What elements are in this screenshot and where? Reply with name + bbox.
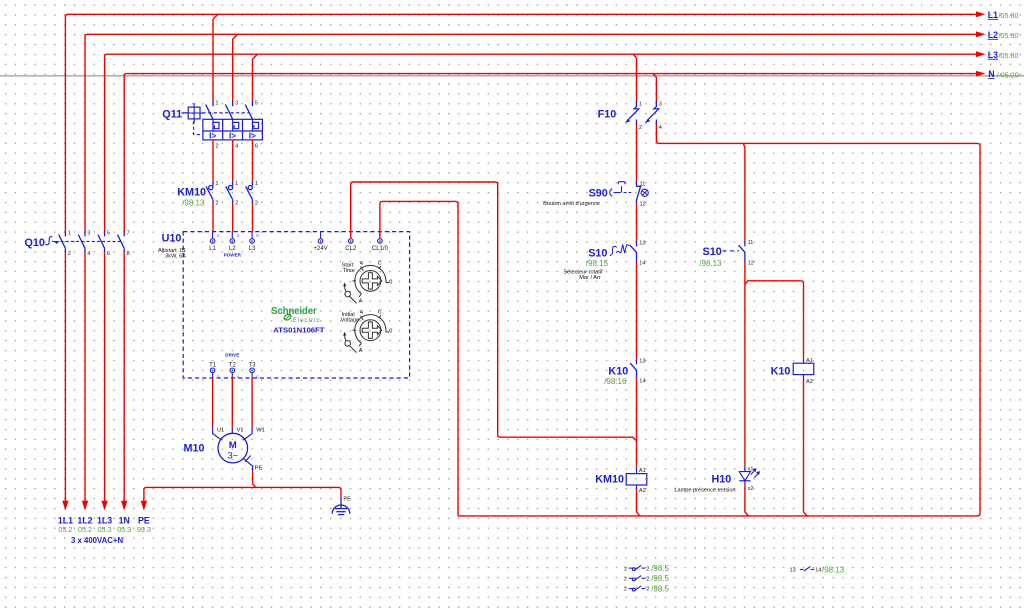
S90 NC contact bbox=[637, 182, 642, 204]
svg-text:T2: T2 bbox=[229, 362, 237, 368]
svg-text:2: 2 bbox=[646, 587, 649, 593]
svg-text:K10: K10 bbox=[608, 366, 628, 378]
svg-text:KM10: KM10 bbox=[177, 187, 206, 199]
wire U10 T2 to motor V1 bbox=[231, 378, 233, 428]
svg-text:4: 4 bbox=[87, 251, 90, 257]
ground PE bbox=[332, 497, 350, 514]
svg-text:U1: U1 bbox=[217, 427, 224, 433]
svg-text:3: 3 bbox=[659, 101, 662, 107]
svg-text:5: 5 bbox=[256, 233, 259, 238]
terminal arrow 1L3 bbox=[97, 501, 112, 534]
svg-text:I>: I> bbox=[229, 132, 236, 141]
Q10 pole 3 (pins 5-6) bbox=[98, 231, 105, 252]
svg-text:4: 4 bbox=[235, 143, 238, 149]
wire Q10 pin 6 to terminal 1L3 bbox=[104, 252, 106, 501]
wire L2 rail bbox=[85, 34, 977, 231]
cross-reference KM10 contact 3-4 row 2 bbox=[624, 574, 670, 583]
svg-text:05.2: 05.2 bbox=[58, 525, 72, 534]
svg-text:C: C bbox=[378, 260, 382, 266]
wire Q11 pin 4 to KM10 pin 3 bbox=[232, 140, 234, 182]
svg-text:6: 6 bbox=[255, 143, 258, 149]
wire rail L1 to Q11 pole 1 bbox=[213, 14, 218, 101]
svg-text:/98.5: /98.5 bbox=[651, 574, 669, 583]
svg-text:W1: W1 bbox=[256, 427, 264, 433]
Schneider logo bbox=[271, 306, 320, 324]
U10 terminal T2 (pin 4) bbox=[229, 362, 240, 379]
svg-text:2: 2 bbox=[639, 125, 642, 131]
terminal arrow 1L2 bbox=[77, 501, 92, 534]
wire S10 pin 12 down to H10 and branch to K10 coil bbox=[744, 261, 746, 465]
cross-reference KM10 contact 5-6 row 3 bbox=[624, 584, 670, 593]
svg-text:U10: U10 bbox=[162, 233, 182, 245]
U10 terminal L2 (pin 3) bbox=[229, 232, 240, 252]
svg-text:1: 1 bbox=[215, 181, 218, 187]
wire Q11 pin 6 to KM10 pin 5 bbox=[252, 140, 254, 182]
svg-text:3: 3 bbox=[87, 231, 90, 237]
wire K10 pin 14 to KM10 coil A1 bbox=[636, 378, 638, 468]
wire KM10 pin 4 to U10 L2 bbox=[232, 203, 234, 232]
svg-text:Time: Time bbox=[343, 268, 355, 274]
svg-text:L2: L2 bbox=[229, 246, 236, 252]
wire CL2 control bbox=[351, 182, 637, 441]
svg-text:C: C bbox=[378, 310, 382, 316]
soft starter U10 enclosure bbox=[183, 232, 409, 378]
svg-text:DRIVE: DRIVE bbox=[225, 353, 239, 358]
relay coil K10 bbox=[771, 359, 814, 379]
svg-text:1: 1 bbox=[217, 233, 220, 238]
wire rail L2 to Q11 pole 2 bbox=[233, 34, 238, 101]
svg-text:14: 14 bbox=[639, 378, 645, 384]
svg-text:2: 2 bbox=[215, 143, 218, 149]
wire PE rail bbox=[144, 487, 341, 501]
svg-text:13: 13 bbox=[639, 358, 645, 364]
U10 terminal L3 (pin 5) bbox=[249, 232, 260, 252]
F10 pole 1 (pins 1-2) bbox=[627, 101, 638, 124]
Q10 pole 2 (pins 3-4) bbox=[78, 231, 85, 252]
svg-text:4: 4 bbox=[360, 310, 363, 316]
Q11 trip unit box bbox=[203, 119, 263, 140]
svg-text:/05.80: /05.80 bbox=[999, 31, 1019, 40]
motor M10 bbox=[184, 427, 265, 463]
U10 terminal CL1/0 bbox=[372, 232, 389, 252]
svg-text:L3: L3 bbox=[249, 246, 256, 252]
svg-text:L1: L1 bbox=[988, 10, 998, 20]
svg-text:/98.13: /98.13 bbox=[182, 198, 205, 207]
svg-text:7: 7 bbox=[127, 231, 130, 237]
motor breaker Q11 bbox=[162, 103, 250, 135]
Q10 pole 1 (pins 1-2) bbox=[59, 231, 66, 252]
svg-text:x1: x1 bbox=[748, 466, 754, 472]
svg-text:PE: PE bbox=[343, 497, 351, 503]
wire U10 T1 to motor U1 bbox=[212, 378, 214, 428]
svg-text:1: 1 bbox=[215, 100, 218, 106]
wire L3 rail bbox=[105, 54, 977, 231]
KM10 pole 3 bbox=[246, 181, 253, 202]
svg-text:2: 2 bbox=[646, 566, 649, 572]
svg-text:/98.5: /98.5 bbox=[651, 584, 669, 593]
Q11 pole 1 blade (pin 1) bbox=[206, 101, 213, 119]
svg-text:ATS01N106FT: ATS01N106FT bbox=[273, 326, 324, 335]
svg-text:Lampe présence tension: Lampe présence tension bbox=[674, 488, 735, 494]
KM10 pole 2 bbox=[226, 181, 233, 202]
svg-text:/98.16: /98.16 bbox=[604, 377, 627, 386]
selector contact S10 (11-12) bbox=[699, 246, 739, 268]
svg-text:L1: L1 bbox=[209, 246, 216, 252]
svg-text:A2: A2 bbox=[806, 379, 813, 385]
svg-text:1: 1 bbox=[235, 181, 238, 187]
svg-text:4: 4 bbox=[659, 125, 662, 131]
svg-text:0: 0 bbox=[389, 279, 392, 285]
wire Q11 pin 2 to KM10 pin 1 bbox=[212, 140, 214, 182]
svg-text:POWER: POWER bbox=[224, 252, 242, 257]
svg-text:0: 0 bbox=[389, 329, 392, 335]
svg-text:3~: 3~ bbox=[227, 451, 238, 462]
wire CL1/0 control bbox=[380, 201, 458, 516]
svg-text:A1: A1 bbox=[639, 468, 646, 474]
svg-text:1: 1 bbox=[624, 587, 627, 593]
wire branch to K10 coil A1 bbox=[745, 281, 804, 359]
svg-text:1: 1 bbox=[68, 231, 71, 237]
svg-text:/98.13: /98.13 bbox=[822, 565, 845, 574]
svg-text:Mar / Arr: Mar / Arr bbox=[579, 275, 601, 281]
svg-text:A: A bbox=[359, 348, 363, 354]
svg-text:12: 12 bbox=[640, 202, 646, 208]
svg-text:6: 6 bbox=[256, 374, 259, 379]
wire F10 pin 2 to S90 pin 11 bbox=[636, 124, 638, 182]
svg-text:1N: 1N bbox=[119, 515, 130, 525]
svg-text:2: 2 bbox=[68, 251, 71, 257]
svg-text:2: 2 bbox=[646, 577, 649, 583]
svg-text:T3: T3 bbox=[249, 362, 257, 368]
svg-text:3: 3 bbox=[237, 233, 240, 238]
wire motor PE to PE rail bbox=[253, 472, 256, 488]
svg-text:N: N bbox=[988, 69, 994, 79]
svg-text:11: 11 bbox=[640, 181, 646, 187]
Q10 pole 4 (pins 7-8) bbox=[118, 231, 125, 252]
svg-text:5: 5 bbox=[255, 100, 258, 106]
svg-text:A: A bbox=[359, 299, 363, 305]
svg-text:A2: A2 bbox=[639, 488, 646, 494]
wire H10 x2 to bottom rail bbox=[745, 485, 749, 516]
U10 terminal CL2 bbox=[345, 232, 357, 252]
wire U10 T3 to motor W1 bbox=[251, 378, 253, 428]
svg-text:/ 05.20: / 05.20 bbox=[997, 70, 1019, 79]
svg-text:11: 11 bbox=[748, 240, 754, 246]
emergency stop S90 bbox=[543, 182, 648, 208]
svg-text:KM10: KM10 bbox=[595, 474, 624, 486]
KM10 pole 1 bbox=[206, 181, 213, 202]
wire KM10 pin 6 to U10 L3 bbox=[252, 203, 254, 232]
svg-text:+24V: +24V bbox=[314, 246, 328, 252]
svg-text:I>: I> bbox=[209, 132, 216, 141]
svg-text:Electric: Electric bbox=[293, 318, 321, 324]
svg-text:M10: M10 bbox=[184, 443, 205, 455]
svg-text:x2: x2 bbox=[748, 486, 754, 492]
selector switch S10 bbox=[563, 245, 630, 282]
svg-text:2: 2 bbox=[217, 374, 220, 379]
svg-text:H10: H10 bbox=[712, 474, 732, 486]
svg-text:I>: I> bbox=[249, 132, 256, 141]
relay contact K10 (13-14) bbox=[604, 366, 628, 387]
svg-text:Schneider: Schneider bbox=[271, 306, 317, 317]
svg-text:F10: F10 bbox=[598, 109, 617, 121]
wire rail L3 to F10 pole 1 bbox=[633, 54, 637, 101]
potentiometer Initial Voltage bbox=[345, 315, 389, 353]
svg-text:Voltage: Voltage bbox=[341, 318, 360, 324]
svg-text:13: 13 bbox=[790, 568, 796, 574]
svg-text:14: 14 bbox=[639, 260, 645, 266]
wire KM10 coil A2 to bottom rail bbox=[637, 489, 641, 516]
svg-text:/05.80: /05.80 bbox=[999, 11, 1019, 20]
wire rail N to F10 pole 2 bbox=[653, 74, 657, 102]
folio arrow N bbox=[976, 69, 1019, 79]
svg-text:/05.80: /05.80 bbox=[999, 51, 1019, 60]
svg-text:2: 2 bbox=[235, 201, 238, 207]
svg-text:A1: A1 bbox=[806, 358, 813, 364]
wire KM10 pin 2 to U10 L1 bbox=[212, 203, 214, 232]
cross-reference KM10 contact 1-2 row 1 bbox=[624, 564, 670, 573]
svg-text:1: 1 bbox=[624, 566, 627, 572]
svg-text:Q11: Q11 bbox=[162, 109, 182, 121]
terminal arrow PE bbox=[137, 501, 151, 534]
disconnect switch Q10 bbox=[25, 237, 122, 249]
svg-text:S10: S10 bbox=[703, 246, 722, 258]
motor PE lead bbox=[243, 456, 262, 472]
terminal arrow 1N bbox=[117, 501, 131, 534]
contactor KM10 bbox=[177, 187, 206, 208]
svg-text:05.3: 05.3 bbox=[117, 525, 131, 534]
svg-text:PE: PE bbox=[138, 515, 150, 525]
svg-text:1L1: 1L1 bbox=[58, 515, 73, 525]
svg-text:2: 2 bbox=[255, 201, 258, 207]
svg-text:05.2: 05.2 bbox=[78, 525, 92, 534]
svg-text:3kW, 6A: 3kW, 6A bbox=[165, 254, 186, 260]
folio arrow L3 bbox=[976, 50, 1018, 60]
svg-text:/98.5: /98.5 bbox=[651, 564, 669, 573]
svg-text:S90: S90 bbox=[589, 188, 608, 200]
svg-text:Bouton arrêt d'urgence: Bouton arrêt d'urgence bbox=[543, 201, 600, 207]
svg-text:/98.15: /98.15 bbox=[586, 259, 609, 268]
svg-text:05.3: 05.3 bbox=[98, 525, 112, 534]
folio arrow L2 bbox=[976, 30, 1018, 40]
svg-text:CL2: CL2 bbox=[345, 246, 357, 252]
svg-text:K10: K10 bbox=[771, 366, 791, 378]
svg-text:CL1/0: CL1/0 bbox=[372, 246, 389, 252]
svg-text:4: 4 bbox=[237, 374, 240, 379]
U10 terminal L1 (pin 1) bbox=[209, 232, 220, 252]
svg-text:/98.13: /98.13 bbox=[699, 259, 722, 268]
wire Q10 pin 4 to terminal 1L2 bbox=[84, 252, 86, 501]
svg-text:3 x 400VAC+N: 3 x 400VAC+N bbox=[71, 536, 123, 545]
svg-text:2: 2 bbox=[215, 201, 218, 207]
svg-text:3: 3 bbox=[235, 100, 238, 106]
wire rail L3 to Q11 pole 3 bbox=[253, 54, 258, 101]
svg-text:1L3: 1L3 bbox=[97, 515, 112, 525]
wire Q10 pin 2 to terminal 1L1 bbox=[64, 252, 66, 501]
U10 terminal +24V bbox=[314, 232, 328, 252]
svg-text:S10: S10 bbox=[588, 247, 607, 259]
wire K10 coil A2 to bottom rail bbox=[804, 379, 808, 516]
svg-text:Q10: Q10 bbox=[25, 237, 45, 249]
S10 NO contact (13-14) bbox=[630, 241, 636, 262]
potentiometer Start Time bbox=[345, 265, 389, 303]
svg-text:1: 1 bbox=[639, 101, 642, 107]
wire N rail bbox=[124, 74, 976, 232]
wire L1 rail bbox=[65, 14, 976, 231]
svg-text:1: 1 bbox=[624, 577, 627, 583]
svg-text:4: 4 bbox=[360, 261, 363, 267]
svg-text:L2: L2 bbox=[988, 30, 998, 40]
breaker F10 bbox=[598, 109, 617, 121]
Q11 pole 2 blade (pin 3) bbox=[225, 101, 232, 119]
svg-text:L3: L3 bbox=[988, 50, 998, 60]
svg-text:12: 12 bbox=[748, 260, 754, 266]
wire Q10 pin 8 to terminal 1N bbox=[123, 252, 125, 501]
F10 pole 2 (pins 3-4) bbox=[647, 101, 658, 124]
indicator lamp H10 bbox=[674, 466, 759, 494]
wire junction to S10 pin 11 bbox=[743, 143, 745, 241]
svg-text:1L2: 1L2 bbox=[77, 515, 92, 525]
wire S10 pin 14 to K10 pin 13 bbox=[636, 262, 638, 359]
svg-text:13: 13 bbox=[639, 240, 645, 246]
cross-reference K10 contact 13-14 bbox=[790, 565, 845, 574]
contactor coil KM10 bbox=[595, 468, 647, 489]
svg-text:1: 1 bbox=[255, 181, 258, 187]
svg-text:PE: PE bbox=[255, 465, 263, 471]
svg-text:14: 14 bbox=[815, 568, 821, 574]
svg-text:V1: V1 bbox=[237, 427, 244, 433]
svg-text:5: 5 bbox=[107, 231, 110, 237]
wire S90 pin 12 to S10 pin 13 bbox=[636, 203, 638, 241]
svg-text:6: 6 bbox=[107, 251, 110, 257]
svg-text:8: 8 bbox=[127, 251, 130, 257]
svg-text:T1: T1 bbox=[209, 362, 217, 368]
svg-text:M: M bbox=[229, 440, 237, 451]
Q11 pole 3 blade (pin 5) bbox=[245, 101, 252, 119]
terminal arrow 1L1 bbox=[58, 501, 73, 534]
svg-text:99.3: 99.3 bbox=[137, 525, 151, 534]
wire F10 pin 4 to right branch bbox=[458, 124, 980, 516]
folio arrow L1 bbox=[976, 10, 1018, 20]
U10 terminal T1 (pin 2) bbox=[209, 362, 220, 379]
U10 terminal T3 (pin 6) bbox=[249, 362, 260, 379]
